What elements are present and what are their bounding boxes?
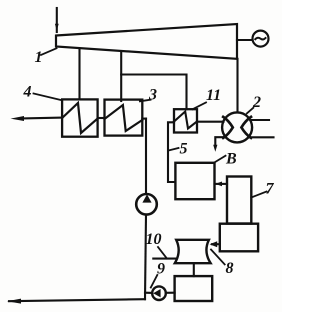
svg-text:5: 5 xyxy=(180,141,188,158)
svg-text:1: 1 xyxy=(35,49,43,66)
svg-text:9: 9 xyxy=(157,261,165,278)
svg-text:7: 7 xyxy=(266,181,275,198)
svg-text:4: 4 xyxy=(23,84,32,101)
svg-text:2: 2 xyxy=(252,94,261,111)
svg-text:10: 10 xyxy=(146,231,162,248)
svg-text:11: 11 xyxy=(206,87,221,104)
svg-text:В: В xyxy=(225,151,237,168)
svg-text:8: 8 xyxy=(226,260,234,277)
svg-text:3: 3 xyxy=(148,87,157,104)
